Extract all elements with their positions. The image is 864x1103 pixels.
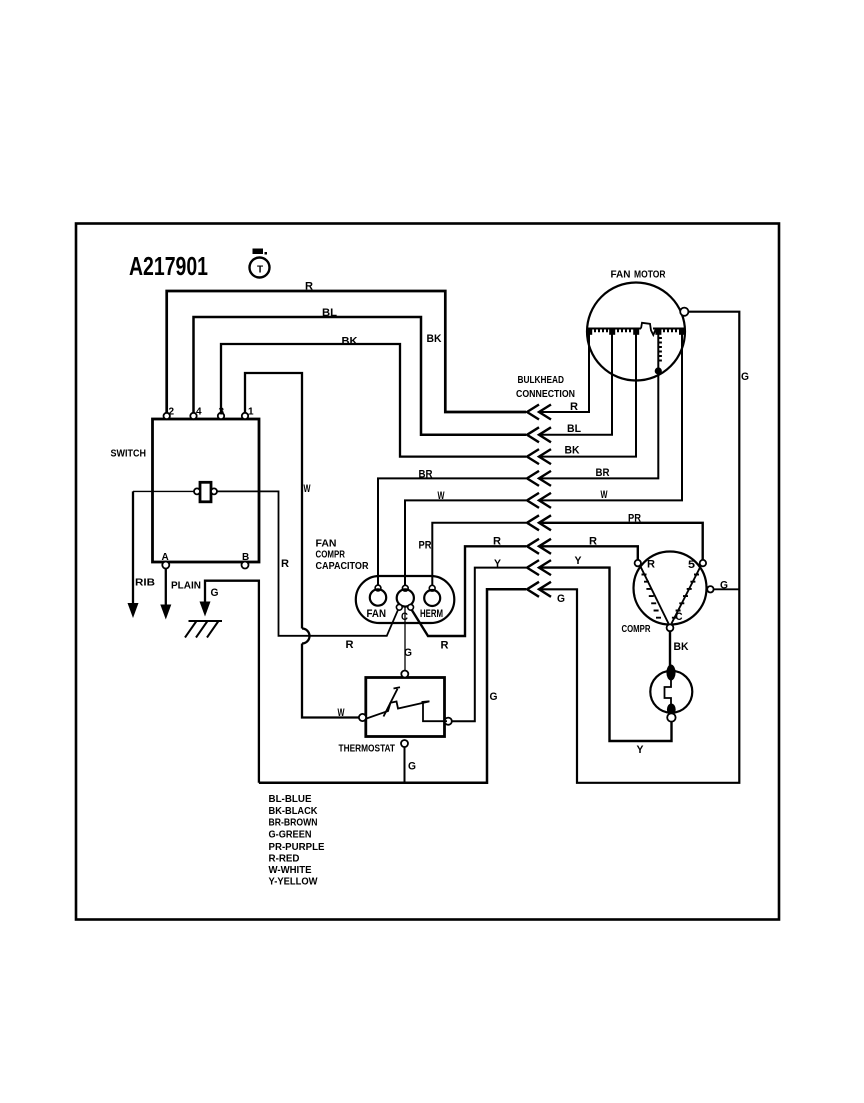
capacitor [356, 576, 455, 671]
PLAIN arrowhead [160, 605, 171, 620]
wire Y: bulkhead row 8 left to thermostat right [452, 568, 526, 722]
compressor R terminal [635, 560, 641, 566]
connector row 4 [527, 471, 551, 486]
connector row 9 [527, 582, 551, 597]
svg-text:B: B [242, 552, 249, 563]
small top lugs [375, 585, 381, 591]
svg-text:R-RED: R-RED [269, 852, 300, 864]
capacitor C terminal [397, 589, 414, 606]
wire G: bulkhead row 9 left down to bottom run [259, 589, 526, 783]
connector row 6 [527, 515, 551, 530]
svg-text:THERMOSTAT: THERMOSTAT [339, 743, 396, 755]
fan motor winding hump [641, 323, 656, 335]
svg-text:Y: Y [575, 555, 583, 567]
svg-text:BL: BL [322, 307, 337, 319]
svg-text:4: 4 [196, 407, 202, 418]
svg-text:G: G [490, 691, 498, 703]
svg-text:W-WHITE: W-WHITE [269, 864, 312, 876]
winding teeth section 2 [618, 329, 630, 333]
wire R: switch terminal 2 up and across to bulkhead row 1 [167, 291, 526, 413]
thermostat right terminal [445, 718, 452, 725]
svg-text:BR: BR [419, 469, 433, 481]
compressor S terminal [700, 560, 706, 566]
svg-text:BK: BK [427, 333, 442, 345]
vertical aux coil [658, 334, 662, 368]
wire W: bulkhead row 5 right to fan motor [539, 334, 683, 500]
switch terminal 4 [190, 413, 196, 419]
switch terminal B [242, 562, 249, 569]
svg-text:G: G [211, 587, 219, 599]
svg-text:Y-YELLOW: Y-YELLOW [269, 875, 318, 887]
switch terminal A [162, 562, 169, 569]
wire W lower segment to thermostat [302, 644, 359, 718]
thermostat bottom terminal [401, 740, 408, 747]
capacitor FAN terminal [370, 589, 386, 605]
svg-text:A217901: A217901 [129, 251, 208, 281]
svg-text:R: R [589, 536, 597, 548]
svg-text:C: C [401, 611, 408, 623]
svg-text:FAN: FAN [367, 608, 387, 620]
wire PR: bulkhead row 6 right to compressor S [539, 523, 703, 560]
svg-text:3: 3 [219, 407, 225, 418]
svg-text:C: C [676, 611, 683, 623]
wire BL: bulkhead row 2 right to fan motor [539, 334, 613, 435]
overload protector [650, 665, 692, 722]
interlock component in switch [200, 482, 211, 502]
wire BL: switch terminal 4 to bulkhead row 2 [194, 317, 527, 435]
svg-text:R: R [570, 401, 578, 413]
wire R: interlock right, down, to capacitor left bottom terminal [217, 491, 398, 635]
wire W: switch terminal 1 up over and down to thermostat left [245, 373, 302, 629]
wire G: ground branch up to switch area [205, 581, 259, 783]
thermostat top terminal [401, 671, 408, 678]
svg-text:RIB: RIB [135, 577, 155, 589]
svg-text:2: 2 [169, 407, 175, 418]
thermostat switch blade [367, 702, 430, 719]
connector row 7 [527, 539, 551, 554]
svg-text:T: T [257, 265, 263, 276]
svg-text:G: G [741, 371, 749, 383]
svg-text:PR-PURPLE: PR-PURPLE [269, 841, 325, 853]
fan motor [587, 283, 685, 381]
connector row 1 [527, 405, 551, 420]
hop of W wire over R wire [302, 629, 310, 644]
svg-text:A: A [162, 552, 169, 563]
wire BR: bulkhead row 4 left to capacitor FAN [378, 478, 526, 585]
switch terminal 3 [218, 413, 224, 419]
svg-text:BK: BK [565, 445, 580, 457]
winding teeth section 1 [595, 329, 607, 333]
switch box [153, 413, 260, 569]
wire G: thermostat bottom to bottom run [404, 747, 406, 783]
svg-text:FAN: FAN [611, 269, 631, 281]
svg-text:W: W [338, 707, 345, 719]
svg-text:1: 1 [248, 407, 254, 418]
svg-text:Y: Y [494, 558, 502, 570]
svg-text:HERM: HERM [420, 608, 443, 620]
winding teeth section 4 [664, 329, 676, 333]
svg-text:BK: BK [342, 336, 358, 348]
small bottom lugs of C [396, 604, 402, 610]
wire G capacitor to thermostat [404, 607, 406, 672]
svg-text:SWITCH: SWITCH [111, 448, 147, 460]
compressor C terminal [667, 624, 674, 631]
svg-text:COMPR: COMPR [622, 623, 651, 635]
thermal protector symbol top [250, 249, 270, 278]
border frame [76, 224, 779, 920]
svg-text:PR: PR [628, 513, 641, 525]
svg-text:BK: BK [674, 641, 689, 653]
wire G: bulkhead row 9 right to compressor/fan ground run [539, 312, 740, 783]
aux coil junction dot [655, 367, 662, 374]
thermostat fixed contact [422, 701, 448, 721]
compressor G terminal [707, 586, 713, 592]
connector row 5 [527, 493, 551, 508]
svg-text:R: R [647, 559, 655, 571]
svg-text:CONNECTION: CONNECTION [516, 388, 575, 400]
G arrowhead [200, 602, 211, 617]
switch terminal 2 [164, 413, 170, 419]
compressor run winding [641, 567, 669, 624]
svg-text:G: G [404, 647, 412, 659]
svg-text:R: R [281, 558, 289, 570]
svg-text:5: 5 [688, 559, 695, 571]
wire BK: switch terminal 3 to bulkhead row 3 [221, 344, 526, 457]
ground symbol [185, 621, 222, 638]
compressor [634, 552, 714, 632]
svg-text:R: R [441, 640, 449, 652]
svg-text:PLAIN: PLAIN [171, 580, 201, 592]
wire Y: bulkhead row 8 right to overload bottom [539, 568, 672, 741]
thermostat actuator [384, 687, 401, 716]
wire BK: compressor C to overload [669, 631, 671, 666]
thermostat [359, 671, 452, 748]
svg-text:BL-BLUE: BL-BLUE [269, 793, 312, 805]
svg-text:BR-BROWN: BR-BROWN [269, 817, 318, 829]
svg-text:G-GREEN: G-GREEN [269, 828, 312, 840]
connector row 8 [527, 560, 551, 575]
svg-text:W: W [601, 489, 608, 501]
svg-text:G: G [557, 593, 565, 605]
wire PR: bulkhead row 6 left to capacitor HERM [432, 523, 526, 586]
legend wire color key [269, 793, 325, 887]
svg-text:PR: PR [419, 540, 432, 552]
wire R: bulkhead row 7 right to compressor R [539, 546, 638, 560]
svg-text:BK-BLACK: BK-BLACK [269, 805, 318, 817]
connector row 2 [527, 427, 551, 442]
fan motor terminal squares [586, 329, 685, 375]
svg-text:BR: BR [596, 467, 610, 479]
svg-text:COMPR: COMPR [316, 549, 346, 561]
fan motor G terminal [680, 308, 688, 316]
svg-text:G: G [720, 580, 728, 592]
wire through switch interlock left [133, 490, 194, 492]
RIB arrowhead [128, 603, 139, 618]
wire R: bulkhead row 1 right to fan motor [539, 334, 590, 412]
switch terminal 1 [242, 413, 248, 419]
bulkhead connector chevrons [527, 405, 551, 597]
wire W: bulkhead row 5 left to capacitor C top [405, 500, 526, 585]
svg-text:W: W [304, 483, 311, 495]
svg-text:W: W [438, 490, 445, 502]
capacitor HERM terminal [424, 590, 440, 606]
svg-text:Y: Y [637, 744, 645, 756]
connector row 3 [527, 449, 551, 464]
thermostat left terminal [359, 714, 366, 721]
svg-text:BULKHEAD: BULKHEAD [518, 374, 565, 386]
wire R: bulkhead row 7 left to capacitor right bottom terminal [412, 546, 526, 636]
PLAIN wire [165, 568, 167, 606]
svg-text:CAPACITOR: CAPACITOR [316, 560, 369, 572]
compressor start winding [672, 567, 701, 624]
svg-text:R: R [305, 281, 313, 293]
RIB wire [132, 491, 134, 604]
wire BR: bulkhead row 4 right to fan motor aux winding [539, 373, 659, 478]
svg-text:MOTOR: MOTOR [634, 269, 666, 281]
wire G: compressor G stub [714, 588, 740, 590]
svg-text:R: R [346, 639, 354, 651]
svg-text:R: R [493, 536, 501, 548]
fan motor winding chord [588, 328, 685, 330]
svg-text:BL: BL [567, 423, 581, 435]
wire BK: bulkhead row 3 right to fan motor [539, 334, 637, 456]
svg-text:G: G [408, 761, 416, 773]
